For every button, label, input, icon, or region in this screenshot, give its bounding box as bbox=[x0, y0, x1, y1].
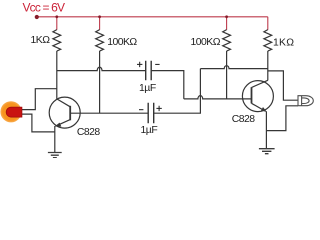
LED D2 inner divider bbox=[301, 96, 303, 106]
label C1 minus sign bbox=[155, 63, 159, 65]
svg-text:1KΩ: 1KΩ bbox=[273, 37, 294, 48]
LED D1 body (red, lit) bbox=[6, 107, 22, 117]
wire R4 lead down to Q2 collector bbox=[267, 51, 269, 80]
svg-text:C828: C828 bbox=[77, 127, 100, 138]
svg-text:100KΩ: 100KΩ bbox=[191, 37, 221, 48]
wire red drop to R3 bbox=[226, 17, 228, 30]
transistor Q2 emitter arrowhead bbox=[261, 107, 267, 112]
wire C1 right plate to Q2 base line (corner down) bbox=[151, 71, 184, 99]
wire LED2 cathode down to emitter wire bbox=[266, 106, 298, 131]
transistor Q2 collector diagonal bbox=[252, 80, 268, 87]
LED D2 inner dome bbox=[302, 98, 310, 104]
ground Q2 emitter bbox=[259, 149, 275, 154]
svg-text:1µF: 1µF bbox=[141, 125, 158, 136]
wire Vcc rail bbox=[37, 16, 268, 18]
node junction R2/rail bbox=[98, 15, 101, 18]
wire Q2 base line with hop over crossing wire, to Q2 base bar bbox=[184, 96, 252, 99]
node junction R3/rail bbox=[225, 15, 228, 18]
transistor Q1 emitter arrowhead bbox=[55, 123, 62, 127]
wire Q1 emitter down to ground bbox=[54, 126, 56, 152]
wire R3 lead down to Q2 base line bbox=[226, 51, 228, 99]
svg-text:1µF: 1µF bbox=[139, 83, 156, 94]
capacitor C2 plates bbox=[148, 103, 154, 123]
label C1 plus sign bbox=[137, 62, 142, 67]
transistor Q1 circle bbox=[49, 97, 80, 128]
transistor Q1 emitter diagonal bbox=[56, 120, 70, 126]
wire LED1 anode up to Q1 collector bbox=[22, 89, 57, 110]
transistor Q2 base bar bbox=[251, 87, 253, 103]
transistor Q2 emitter diagonal bbox=[252, 103, 266, 111]
resistor R1 zigzag bbox=[53, 30, 61, 52]
resistor R3 zigzag bbox=[223, 30, 231, 52]
resistor R2 zigzag bbox=[96, 30, 104, 52]
svg-text:C828: C828 bbox=[232, 114, 255, 125]
wire Q1 collector to C1 left plate with hop over R2 lead bbox=[57, 67, 146, 71]
svg-text:1KΩ: 1KΩ bbox=[31, 35, 51, 46]
wire red drop to R1 bbox=[56, 17, 58, 30]
wire R1 lead down to Q1 collector bbox=[56, 51, 58, 99]
transistor Q1 base bar bbox=[69, 106, 71, 121]
label C2 plus sign bbox=[156, 106, 161, 111]
wire R2 lead down to Q1 base line bbox=[99, 51, 101, 113]
wire Q2 emitter down to ground bbox=[265, 111, 267, 148]
svg-text:100KΩ: 100KΩ bbox=[107, 37, 137, 48]
wire C2 right plate up and over to Q2 collector node (hop over R3 lead) bbox=[154, 66, 268, 114]
transistor Q2 circle bbox=[242, 81, 273, 112]
transistor Q1 collector diagonal bbox=[57, 99, 70, 107]
capacitor C1 plates bbox=[146, 61, 152, 80]
ground Q1 emitter bbox=[48, 153, 62, 158]
wire red drop to R4 bbox=[267, 17, 269, 30]
wire Q1 base line to C2 left plate bbox=[70, 112, 148, 114]
node junction R1/rail bbox=[55, 15, 58, 18]
wire red drop to R2 bbox=[99, 17, 101, 30]
label C2 minus sign bbox=[139, 109, 143, 111]
node Vcc terminal dot bbox=[35, 15, 39, 19]
wire LED1 cathode down to emitter wire bbox=[22, 114, 55, 132]
LED D2 (unlit) body bbox=[298, 96, 313, 106]
wire branch Q2 collector node to LED2 anode bbox=[268, 71, 298, 100]
svg-text:Vcc = 6V: Vcc = 6V bbox=[23, 0, 66, 14]
resistor R4 zigzag bbox=[264, 30, 272, 52]
